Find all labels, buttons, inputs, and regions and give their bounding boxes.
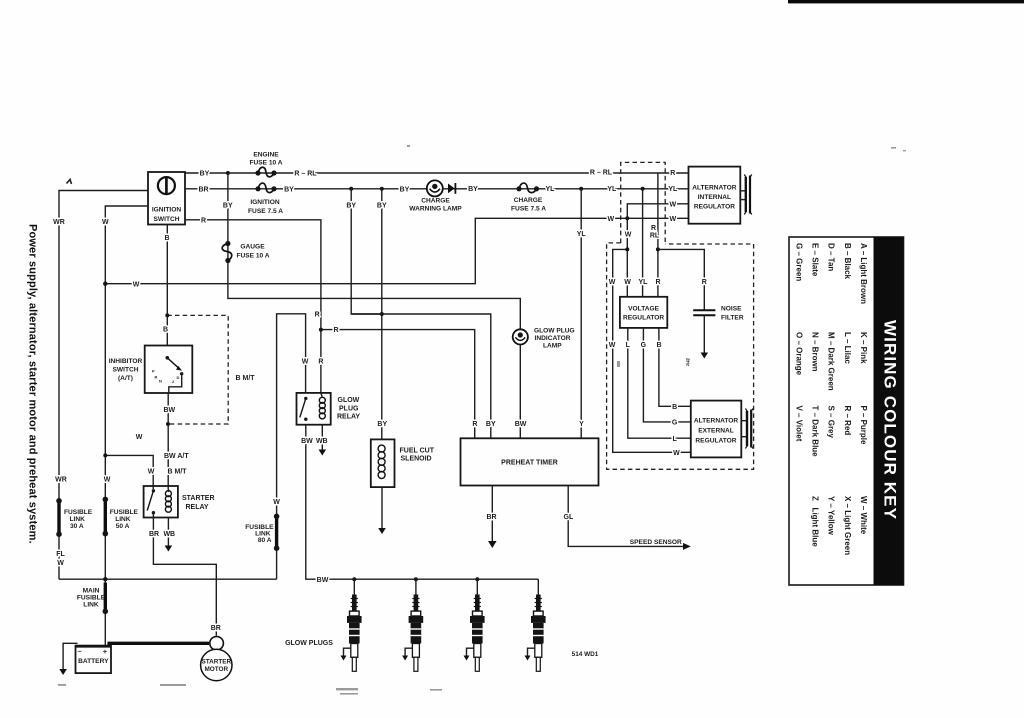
svg-text:WR: WR bbox=[53, 219, 65, 226]
svg-text:CHARGE: CHARGE bbox=[514, 197, 543, 204]
svg-text:REGULATOR: REGULATOR bbox=[623, 314, 664, 321]
glow plug bus junction 1 bbox=[352, 577, 356, 581]
junction W bus at W vertical bbox=[103, 282, 107, 286]
svg-text:O – Orange: O – Orange bbox=[794, 332, 803, 376]
svg-text:STARTER: STARTER bbox=[182, 495, 215, 502]
gauge fuse F4 bbox=[222, 241, 270, 263]
junction R branch to preheat timer bbox=[319, 328, 323, 332]
glow plug 3 bbox=[464, 579, 485, 671]
wire BY drop 1 (jog to fuel cut feed) bbox=[351, 189, 382, 314]
preheat timer bbox=[461, 438, 599, 485]
svg-text:FUSE 7.5 A: FUSE 7.5 A bbox=[248, 208, 283, 215]
svg-text:R: R bbox=[155, 375, 158, 380]
svg-text:BW: BW bbox=[515, 421, 527, 428]
svg-text:B: B bbox=[163, 327, 168, 334]
scanner black strip top right bbox=[788, 0, 1024, 3]
ground battery bbox=[59, 669, 67, 675]
wire B: ignition switch to inhibitor switch bbox=[166, 225, 168, 346]
wire BY to preheat timer (from drop1 jog) bbox=[351, 314, 491, 438]
svg-text:FILTER: FILTER bbox=[721, 314, 744, 321]
svg-text:YL: YL bbox=[668, 186, 678, 193]
svg-text:IGNITION: IGNITION bbox=[152, 207, 182, 214]
wire2 BR / BY / YL: ignition switch to alternator internal regulator bbox=[185, 188, 689, 190]
svg-text:INDICATOR: INDICATOR bbox=[535, 335, 571, 342]
svg-text:MAIN: MAIN bbox=[83, 588, 100, 595]
svg-text:G – Green: G – Green bbox=[794, 243, 803, 281]
svg-text:R – RL: R – RL bbox=[294, 171, 317, 178]
fusible link 50A bbox=[104, 499, 107, 533]
svg-text:MOTOR: MOTOR bbox=[204, 666, 228, 673]
svg-text:FUEL CUT: FUEL CUT bbox=[400, 448, 435, 455]
svg-text:FUSE 10 A: FUSE 10 A bbox=[249, 160, 282, 167]
svg-text:GL: GL bbox=[564, 514, 574, 521]
svg-text:BY: BY bbox=[223, 202, 233, 209]
alternator internal regulator bbox=[689, 167, 741, 224]
svg-text:R: R bbox=[651, 225, 656, 232]
svg-text:L: L bbox=[626, 342, 631, 349]
wire BW inhibitor to starter relay bbox=[167, 393, 169, 489]
main bus wire bbox=[59, 578, 277, 580]
svg-text:P – Purple: P – Purple bbox=[859, 406, 868, 446]
svg-text:INTERNAL: INTERNAL bbox=[698, 194, 731, 201]
svg-text:B – Black: B – Black bbox=[843, 243, 852, 280]
ground fuel cut solenoid bbox=[378, 528, 386, 534]
glow plug bus junction 3 bbox=[475, 577, 479, 581]
svg-text:WR: WR bbox=[55, 477, 67, 484]
svg-text:514 WD1: 514 WD1 bbox=[572, 651, 599, 658]
svg-text:W: W bbox=[104, 477, 111, 484]
svg-text:RELAY: RELAY bbox=[337, 414, 360, 421]
fusible link 80A bbox=[275, 516, 278, 548]
svg-text:R: R bbox=[670, 170, 675, 177]
svg-text:E – Slate: E – Slate bbox=[811, 243, 820, 277]
svg-text:SWITCH: SWITCH bbox=[153, 216, 179, 223]
svg-text:GAUGE: GAUGE bbox=[240, 243, 265, 250]
svg-text:Z Light Blue: Z Light Blue bbox=[811, 496, 820, 547]
pulley internal alternator bbox=[740, 175, 752, 215]
svg-text:BW A/T: BW A/T bbox=[164, 453, 189, 460]
starter motor bbox=[201, 649, 232, 680]
glow plug relay K1 bbox=[297, 393, 361, 425]
svg-text:L: L bbox=[672, 436, 677, 443]
svg-text:ENGINE: ENGINE bbox=[253, 152, 279, 159]
engine fuse F1 bbox=[249, 152, 282, 177]
wire BY drop 2 to fuel cut solenoid bbox=[381, 189, 383, 440]
inhibitor switch S2 bbox=[109, 346, 193, 394]
svg-text:W: W bbox=[136, 434, 143, 441]
svg-text:SWITCH: SWITCH bbox=[112, 367, 138, 374]
glow plug bus junction 2 bbox=[414, 577, 418, 581]
junction W tap to regulators bbox=[625, 216, 629, 220]
junction bypass bottom bbox=[166, 422, 170, 426]
svg-text:M – Dark Green: M – Dark Green bbox=[827, 332, 836, 391]
svg-text:B M/T: B M/T bbox=[168, 468, 188, 475]
svg-text:–: – bbox=[78, 646, 82, 655]
svg-text:LAMP: LAMP bbox=[543, 343, 562, 350]
svg-text:W: W bbox=[609, 279, 616, 286]
svg-text:R: R bbox=[472, 421, 477, 428]
ground starter relay bbox=[165, 546, 173, 552]
svg-text:W: W bbox=[624, 279, 631, 286]
scan specks bbox=[58, 145, 906, 695]
wire BR starter relay to starter motor bbox=[153, 518, 216, 636]
wire WR from left to ignition switch bbox=[59, 191, 148, 580]
svg-text:T – Dark Blue: T – Dark Blue bbox=[811, 406, 820, 458]
junction BY drop 2 bbox=[380, 187, 384, 191]
glow plug 1 bbox=[341, 579, 362, 671]
svg-text:W: W bbox=[673, 450, 680, 457]
svg-text:R: R bbox=[315, 312, 320, 319]
svg-text:W: W bbox=[669, 216, 676, 223]
fusible link 30A bbox=[57, 501, 60, 534]
svg-text:R: R bbox=[702, 279, 707, 286]
svg-text:WIRING COLOUR KEY: WIRING COLOUR KEY bbox=[880, 320, 899, 520]
svg-text:BR: BR bbox=[149, 531, 159, 538]
svg-text:YL: YL bbox=[577, 231, 587, 238]
speed sensor arrow bbox=[683, 543, 691, 550]
dashed box alternator assembly bbox=[607, 243, 754, 469]
svg-text:(A/T): (A/T) bbox=[118, 375, 133, 382]
svg-text:BW: BW bbox=[301, 438, 313, 445]
svg-text:W: W bbox=[609, 342, 616, 349]
wire W jog to regulators bbox=[613, 218, 691, 452]
svg-text:N: N bbox=[159, 379, 162, 384]
svg-text:X – Light Green: X – Light Green bbox=[843, 496, 852, 555]
ground noise filter bbox=[701, 353, 709, 359]
svg-text:WB: WB bbox=[163, 531, 175, 538]
junction W jog bbox=[625, 247, 629, 251]
inhibitor switch dashed M/T bypass bbox=[167, 315, 228, 424]
pulley external alternator bbox=[741, 409, 753, 449]
svg-text:PLUG: PLUG bbox=[339, 405, 359, 412]
svg-text:G: G bbox=[641, 342, 647, 349]
wire W bus: W vertical to alternator internal regulator bbox=[105, 218, 688, 283]
svg-text:30 A: 30 A bbox=[70, 523, 84, 530]
main fusible link bbox=[104, 583, 107, 612]
svg-text:FL: FL bbox=[56, 551, 65, 558]
svg-text:50 A: 50 A bbox=[116, 523, 130, 530]
svg-text:2Hz: 2Hz bbox=[686, 358, 691, 367]
svg-text:P: P bbox=[152, 369, 155, 374]
svg-text:W: W bbox=[625, 232, 632, 239]
wire noise filter to ground bbox=[703, 315, 705, 352]
svg-text:80 A: 80 A bbox=[258, 537, 272, 544]
fuel cut solenoid bbox=[371, 439, 435, 487]
svg-text:BATTERY: BATTERY bbox=[78, 658, 109, 665]
svg-text:GLOW PLUGS: GLOW PLUGS bbox=[285, 640, 333, 647]
svg-text:YL: YL bbox=[607, 186, 617, 193]
wire R: ignition switch to glow plug relay coil bbox=[185, 220, 321, 393]
svg-text:W: W bbox=[57, 560, 64, 567]
wire GL preheat timer to speed sensor bbox=[568, 486, 683, 547]
svg-text:W – White: W – White bbox=[859, 496, 868, 535]
wire R to noise filter bbox=[658, 249, 704, 310]
svg-text:BW: BW bbox=[163, 407, 175, 414]
svg-text:VOLTAGE: VOLTAGE bbox=[628, 306, 659, 313]
svg-text:SLENOID: SLENOID bbox=[401, 456, 432, 463]
ignition fuse F2 bbox=[248, 183, 283, 215]
svg-text:REGULATOR: REGULATOR bbox=[695, 437, 736, 444]
junction YL drop to preheat timer bbox=[579, 187, 583, 191]
svg-text:W: W bbox=[669, 201, 676, 208]
svg-text:LINK: LINK bbox=[83, 602, 99, 609]
svg-text:R: R bbox=[201, 217, 206, 224]
svg-text:G: G bbox=[672, 420, 678, 427]
wire WB glow plug relay to ground bbox=[321, 425, 323, 450]
svg-text:BY: BY bbox=[200, 171, 210, 178]
starter motor solenoid bbox=[210, 637, 224, 651]
junction BY jog bbox=[380, 312, 384, 316]
svg-text:W: W bbox=[133, 281, 140, 288]
wire R branch to preheat timer bbox=[321, 330, 475, 439]
wire YL drop to preheat timer bbox=[580, 189, 582, 438]
svg-text:B: B bbox=[164, 235, 169, 242]
wire W to fusible link 80A and glow plug relay bbox=[277, 314, 306, 579]
svg-text:BR: BR bbox=[486, 514, 496, 521]
svg-text:YL: YL bbox=[546, 186, 556, 193]
svg-text:FUSE 10 A: FUSE 10 A bbox=[236, 253, 269, 260]
alternator external regulator bbox=[691, 401, 742, 458]
ground glow plug relay bbox=[319, 450, 327, 456]
svg-text:Y – Yellow: Y – Yellow bbox=[827, 496, 836, 536]
svg-text:BY: BY bbox=[377, 421, 387, 428]
junction BY drop 1 bbox=[349, 187, 353, 191]
svg-text:D – Tan: D – Tan bbox=[827, 243, 836, 271]
svg-text:W: W bbox=[102, 219, 109, 226]
svg-text:ALTERNATOR: ALTERNATOR bbox=[694, 418, 739, 425]
wire WB starter relay to ground bbox=[167, 518, 169, 546]
junction YL drop to voltage regulator bbox=[641, 187, 645, 191]
svg-text:W: W bbox=[302, 359, 309, 366]
voltage regulator bbox=[620, 297, 667, 328]
wire L voltage reg to external regulator bbox=[628, 328, 691, 438]
svg-text:N – Brown: N – Brown bbox=[811, 332, 820, 372]
svg-text:B: B bbox=[656, 342, 661, 349]
battery positive cable to starter motor bbox=[107, 642, 209, 645]
ground preheat timer bbox=[488, 541, 497, 548]
svg-text:L – Lilac: L – Lilac bbox=[843, 332, 852, 364]
svg-text:K – Pink: K – Pink bbox=[859, 332, 868, 364]
svg-text:+: + bbox=[103, 647, 108, 656]
svg-text:B M/T: B M/T bbox=[236, 375, 256, 382]
svg-text:D: D bbox=[177, 375, 180, 380]
svg-text:RELAY: RELAY bbox=[186, 504, 209, 511]
svg-text:A – Light Brown: A – Light Brown bbox=[859, 243, 868, 304]
svg-text:V – Violet: V – Violet bbox=[794, 406, 803, 442]
junction gauge-fuse tap bbox=[226, 171, 230, 175]
svg-text:R – RL: R – RL bbox=[590, 170, 613, 177]
noise filter capacitor bbox=[693, 306, 744, 322]
wire BW glow plug relay to glow plug bus bbox=[306, 425, 539, 580]
junction W branch bbox=[103, 453, 107, 457]
svg-text:EXTERNAL: EXTERNAL bbox=[698, 428, 734, 435]
svg-text:FUSE 7.5 A: FUSE 7.5 A bbox=[511, 206, 546, 213]
svg-text:WB: WB bbox=[316, 438, 328, 445]
svg-text:NOISE: NOISE bbox=[721, 306, 742, 313]
svg-text:R – Red: R – Red bbox=[843, 406, 852, 436]
wire W branch to starter relay bbox=[105, 455, 153, 489]
svg-text:BR: BR bbox=[198, 186, 208, 193]
svg-text:B: B bbox=[672, 404, 677, 411]
charge fuse F3 bbox=[511, 183, 546, 213]
starter relay K2 bbox=[144, 486, 215, 518]
wire BR preheat timer to ground bbox=[491, 486, 493, 542]
svg-text:RL: RL bbox=[650, 233, 660, 240]
svg-text:R: R bbox=[655, 279, 660, 286]
svg-text:BY: BY bbox=[346, 202, 356, 209]
svg-text:BY: BY bbox=[284, 186, 294, 193]
wire1 BY / R-RL: ignition switch to alternator internal regulator bbox=[185, 172, 689, 174]
wire BW lamp to preheat timer bbox=[519, 345, 521, 439]
junction bypass top bbox=[165, 313, 169, 317]
svg-text:REGULATOR: REGULATOR bbox=[694, 203, 735, 210]
svg-text:WARNING LAMP: WARNING LAMP bbox=[409, 206, 462, 213]
diode D1 bbox=[448, 183, 455, 194]
charge warning lamp L1 bbox=[409, 180, 462, 212]
battery bbox=[76, 646, 112, 674]
svg-text:W: W bbox=[607, 216, 614, 223]
svg-text:Power supply, alternator, star: Power supply, alternator, starter motor … bbox=[27, 224, 39, 544]
svg-text:R: R bbox=[318, 359, 323, 366]
svg-text:STARTER: STARTER bbox=[201, 658, 231, 665]
svg-text:ALTERNATOR: ALTERNATOR bbox=[692, 184, 737, 191]
svg-text:YL: YL bbox=[639, 279, 649, 286]
wire G voltage reg to external regulator bbox=[643, 328, 690, 422]
svg-text:IGNITION: IGNITION bbox=[250, 199, 280, 206]
svg-text:GLOW: GLOW bbox=[338, 397, 360, 404]
gauge fuse wire BY down from wire1 bbox=[228, 173, 520, 329]
stray check mark bbox=[67, 180, 72, 185]
svg-text:INHIBITOR: INHIBITOR bbox=[109, 358, 143, 365]
svg-text:BY: BY bbox=[377, 202, 387, 209]
svg-text:S – Grey: S – Grey bbox=[827, 406, 836, 439]
ignition switch S1 bbox=[148, 172, 185, 225]
svg-text:BY: BY bbox=[400, 186, 410, 193]
wire fuel cut solenoid to ground bbox=[381, 487, 383, 528]
svg-text:CHARGE: CHARGE bbox=[421, 197, 450, 204]
wire W short to internal regulator bbox=[627, 204, 688, 219]
svg-text:BR: BR bbox=[211, 625, 221, 632]
svg-text:FUSIBLE: FUSIBLE bbox=[77, 595, 106, 602]
svg-text:BY: BY bbox=[468, 186, 478, 193]
svg-text:SPEED SENSOR: SPEED SENSOR bbox=[630, 539, 682, 546]
svg-text:BW: BW bbox=[317, 577, 329, 584]
wire B voltage reg to external regulator bbox=[659, 328, 691, 406]
svg-text:GLOW PLUG: GLOW PLUG bbox=[534, 328, 575, 335]
svg-text:R: R bbox=[333, 327, 338, 334]
wiring colour key table bbox=[789, 237, 904, 585]
wire YL to voltage regulator bbox=[642, 189, 644, 297]
glow plug indicator lamp L2 bbox=[513, 328, 575, 350]
battery negative lead to ground bbox=[63, 643, 77, 669]
junction noise filter tap bbox=[656, 247, 660, 251]
junction main bus / battery feed bbox=[103, 577, 107, 581]
svg-text:W: W bbox=[273, 499, 280, 506]
glow plug 4 bbox=[525, 579, 546, 671]
wire R to voltage regulator bbox=[657, 173, 659, 297]
svg-text:PREHEAT TIMER: PREHEAT TIMER bbox=[501, 460, 558, 467]
wire W to voltage regulator bbox=[626, 249, 628, 296]
wire W from left to ignition switch bbox=[105, 206, 148, 645]
svg-text:BY: BY bbox=[486, 421, 496, 428]
svg-text:Y: Y bbox=[579, 421, 584, 428]
glow plug 2 bbox=[402, 579, 423, 671]
dashed box alternator harness bbox=[621, 162, 666, 243]
svg-text:W: W bbox=[148, 468, 155, 475]
